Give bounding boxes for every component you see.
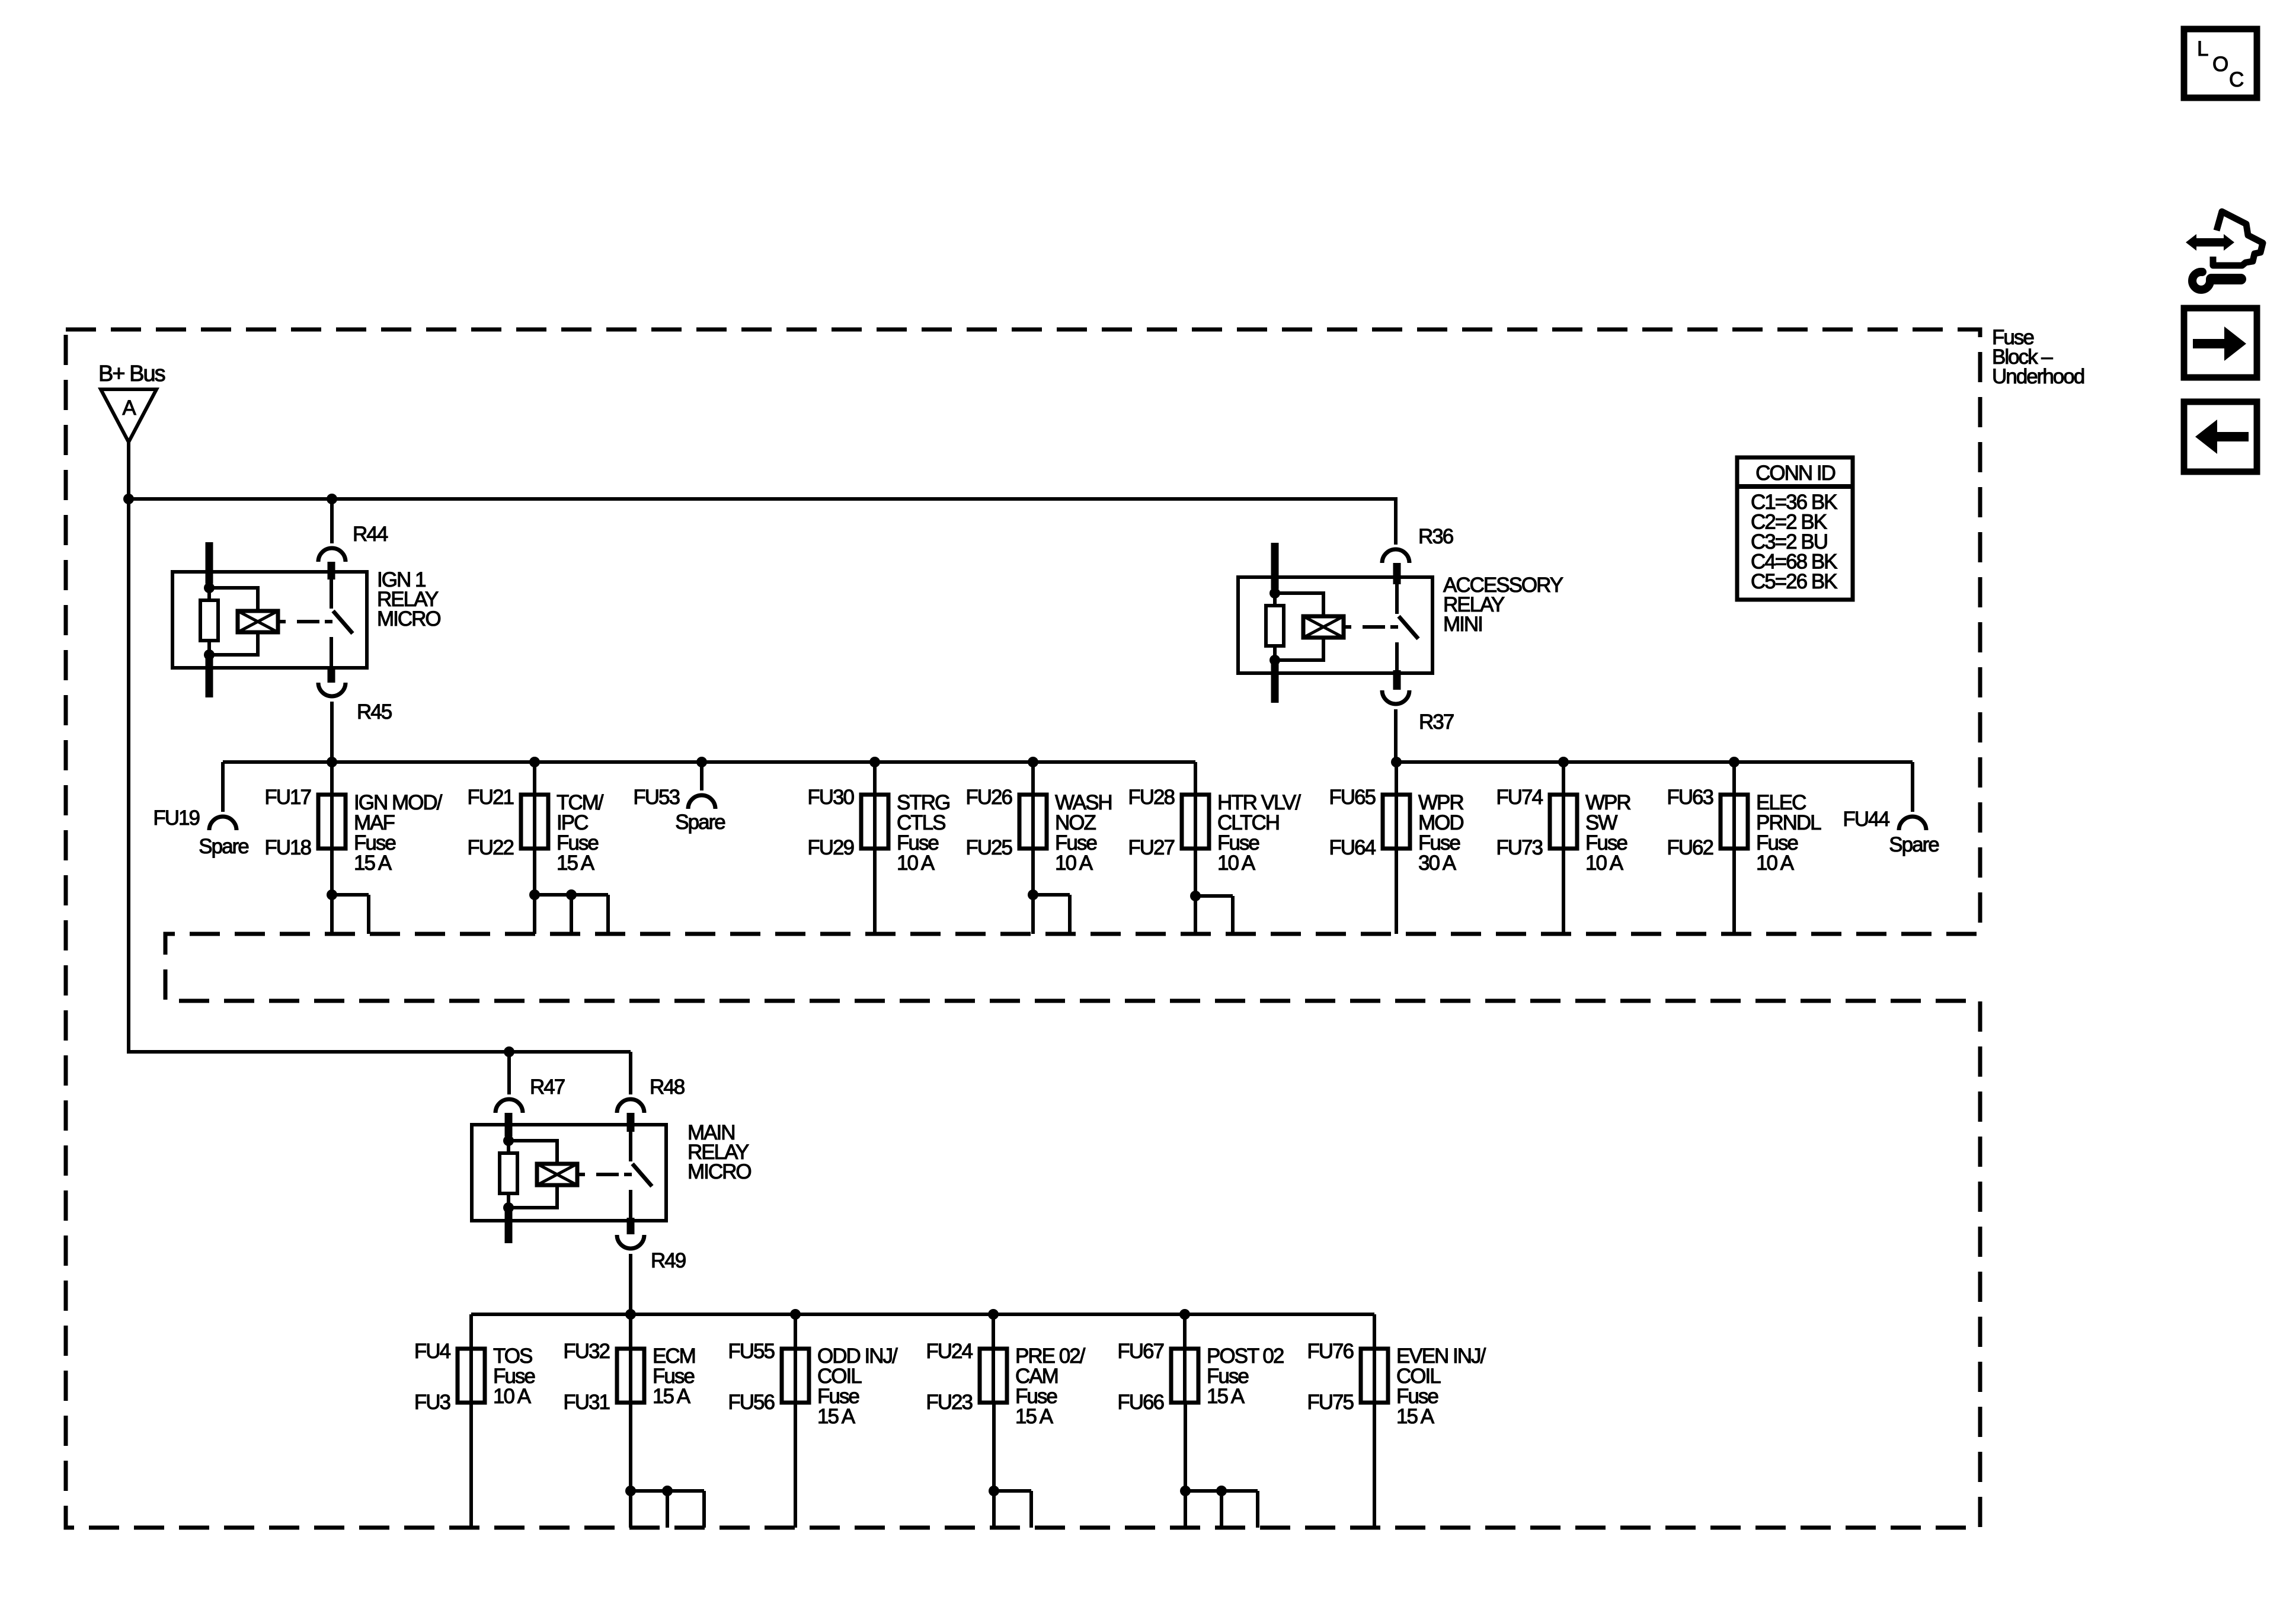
svg-text:FU18: FU18 xyxy=(264,836,311,859)
svg-text:FU75: FU75 xyxy=(1307,1391,1353,1414)
svg-text:R36: R36 xyxy=(1418,525,1453,548)
node: junction FU24 on main relay bus xyxy=(988,1309,999,1320)
svg-text:FU23: FU23 xyxy=(926,1391,972,1414)
svg-text:10 A: 10 A xyxy=(1217,852,1256,875)
svg-text:15 A: 15 A xyxy=(354,852,392,875)
icon: powertrain double arrow xyxy=(2186,234,2234,251)
node: junction FU55 on main relay bus xyxy=(790,1309,801,1320)
node: junction R45/FU17 on ignition bus xyxy=(327,757,337,767)
fuse FU17/FU18 IGN MOD/ 15 A xyxy=(330,762,334,795)
svg-text:15 A: 15 A xyxy=(653,1385,691,1408)
dashed outline: Fuse Block - Underhood boundary with C4 channel notch xyxy=(66,329,1980,1528)
svg-text:FU24: FU24 xyxy=(926,1340,973,1363)
wire: branch down to R44 xyxy=(330,499,334,543)
connector R47 (input) xyxy=(495,1099,523,1113)
svg-text:FU74: FU74 xyxy=(1496,786,1543,809)
connector R37 (output) xyxy=(1382,690,1409,704)
wire: ignition fuse bus xyxy=(223,760,1195,764)
svg-text:FU17: FU17 xyxy=(264,786,311,809)
wire: R45 output down to ignition fuse bus xyxy=(330,702,334,762)
wire: B+ vertical feed from triangle A down to main relay feed corner xyxy=(129,442,631,1052)
wire: R49 output down to main relay fuse bus xyxy=(629,1254,632,1314)
relay K2 ACCESSORY RELAY MINI xyxy=(1238,577,1432,673)
svg-text:FU19: FU19 xyxy=(153,806,199,830)
fuse FU21/FU22 TCM/ 15 A xyxy=(533,762,536,795)
svg-text:L: L xyxy=(2197,37,2208,60)
svg-text:A: A xyxy=(122,396,136,420)
wire: FU29 output to channel xyxy=(873,849,877,934)
svg-text:FU26: FU26 xyxy=(965,786,1012,809)
spare terminal FU44 xyxy=(1911,762,1914,812)
wire: FU75 output to border xyxy=(1373,1403,1376,1528)
node: junction FU67 on main relay bus xyxy=(1179,1309,1190,1320)
svg-text:CONN ID: CONN ID xyxy=(1755,462,1835,485)
svg-text:10 A: 10 A xyxy=(1055,852,1093,875)
svg-text:FU44: FU44 xyxy=(1843,808,1889,831)
fuse FU63/FU62 ELEC 10 A xyxy=(1732,762,1736,795)
wire: branch down to R47 xyxy=(507,1052,511,1094)
fuse FU4/FU3 TOS 10 A xyxy=(469,1314,473,1349)
wire: top horizontal B+ bus to accessory relay xyxy=(129,499,1396,545)
connector R49 (output) xyxy=(617,1235,644,1249)
svg-text:10 A: 10 A xyxy=(1756,852,1795,875)
svg-text:FU22: FU22 xyxy=(467,836,513,859)
wire: FU18 output fork to channel xyxy=(330,849,334,895)
wire: main relay fuse bus xyxy=(471,1313,1374,1316)
wire: FU66 output fork to border xyxy=(1184,1403,1187,1491)
svg-text:FU31: FU31 xyxy=(563,1391,609,1414)
spare terminal FU19 xyxy=(221,762,225,812)
icon: wrench xyxy=(2192,272,2210,290)
relay K3 MAIN RELAY MICRO xyxy=(472,1125,666,1221)
svg-text:O: O xyxy=(2212,53,2228,76)
svg-text:15 A: 15 A xyxy=(817,1405,856,1428)
fuse FU76/FU75 EVEN INJ/ 15 A xyxy=(1373,1314,1376,1349)
wire: drop to R48 xyxy=(629,1052,632,1094)
wire: FU73 output to channel xyxy=(1562,849,1565,934)
svg-text:FU4: FU4 xyxy=(414,1340,451,1363)
power symbol B+ Bus triangle A xyxy=(101,389,156,442)
fuse FU55/FU56 ODD INJ/ 15 A xyxy=(794,1314,797,1349)
fuse FU30/FU29 STRG 10 A xyxy=(873,762,877,795)
svg-text:FU65: FU65 xyxy=(1329,786,1375,809)
svg-text:10 A: 10 A xyxy=(1585,852,1624,875)
svg-text:R45: R45 xyxy=(357,700,392,724)
svg-text:Underhood: Underhood xyxy=(1992,365,2084,388)
svg-text:FU25: FU25 xyxy=(965,836,1012,859)
fuse FU28/FU27 HTR VLV/ 10 A xyxy=(1194,762,1197,795)
connector R36 (input) xyxy=(1382,549,1409,563)
spare terminal FU53 xyxy=(700,762,703,790)
node: B+ bus tee junction xyxy=(123,494,134,504)
svg-text:FU53: FU53 xyxy=(633,786,679,809)
fuse FU65/FU64 WPR 30 A xyxy=(1395,762,1398,795)
svg-text:FU21: FU21 xyxy=(467,786,513,809)
svg-text:R37: R37 xyxy=(1419,710,1454,734)
svg-text:R49: R49 xyxy=(651,1249,686,1272)
svg-text:FU63: FU63 xyxy=(1667,786,1713,809)
fuse FU74/FU73 WPR 10 A xyxy=(1562,762,1565,795)
node: junction FU63 on accessory bus xyxy=(1729,757,1739,767)
wire: FU56 output to border xyxy=(794,1403,797,1528)
wire: FU31 output fork to border xyxy=(629,1403,632,1491)
icon: LOC box xyxy=(2184,29,2257,98)
icon: powertrain outline xyxy=(2213,212,2263,265)
node: R44 branch junction on B+ bus xyxy=(327,494,337,504)
node: junction FU26 on ignition bus xyxy=(1028,757,1038,767)
svg-text:FU62: FU62 xyxy=(1667,836,1713,859)
svg-text:FU66: FU66 xyxy=(1117,1391,1163,1414)
svg-text:15 A: 15 A xyxy=(1207,1385,1245,1408)
svg-text:15 A: 15 A xyxy=(557,852,595,875)
svg-text:FU27: FU27 xyxy=(1128,836,1174,859)
node: junction FU53 on ignition bus xyxy=(696,757,707,767)
wire: FU23 output fork to border xyxy=(992,1403,996,1491)
svg-text:FU55: FU55 xyxy=(728,1340,774,1363)
fuse FU26/FU25 WASH 10 A xyxy=(1031,762,1035,795)
fuse FU32/FU31 ECM 15 A xyxy=(629,1314,632,1349)
svg-text:Spare: Spare xyxy=(1889,833,1939,856)
svg-text:FU73: FU73 xyxy=(1496,836,1542,859)
node: junction FU21 on ignition bus xyxy=(529,757,540,767)
fuse FU24/FU23 PRE 02/ 15 A xyxy=(992,1314,995,1349)
svg-text:FU67: FU67 xyxy=(1117,1340,1163,1363)
svg-text:Spare: Spare xyxy=(675,811,725,834)
svg-text:FU56: FU56 xyxy=(728,1391,774,1414)
svg-text:FU64: FU64 xyxy=(1329,836,1376,859)
relay K1 IGN 1 RELAY MICRO xyxy=(172,572,367,668)
node: junction R49/FU32 on main relay bus xyxy=(625,1309,636,1320)
svg-text:15 A: 15 A xyxy=(1015,1405,1054,1428)
svg-text:MICRO: MICRO xyxy=(687,1160,751,1183)
icon: back arrow box xyxy=(2184,402,2257,472)
svg-text:30 A: 30 A xyxy=(1418,852,1457,875)
svg-text:10 A: 10 A xyxy=(897,852,935,875)
svg-text:R48: R48 xyxy=(650,1076,685,1099)
svg-text:C5=26 BK: C5=26 BK xyxy=(1751,570,1837,593)
node: R47 branch junction on main relay feed xyxy=(504,1046,514,1057)
svg-text:R44: R44 xyxy=(353,523,388,546)
icon: forward arrow box xyxy=(2184,308,2257,377)
svg-text:FU29: FU29 xyxy=(807,836,853,859)
svg-text:15 A: 15 A xyxy=(1396,1405,1435,1428)
node: junction FU30 on ignition bus xyxy=(869,757,880,767)
node: junction FU74 on accessory bus xyxy=(1558,757,1569,767)
svg-text:Spare: Spare xyxy=(199,835,248,858)
connector R45 (output) xyxy=(318,683,346,696)
svg-text:B+ Bus: B+ Bus xyxy=(98,361,165,386)
svg-text:FU32: FU32 xyxy=(563,1340,609,1363)
wire: FU64 output to channel xyxy=(1395,849,1398,934)
table: CONN ID connector legend xyxy=(1737,457,1853,600)
wire: FU22 output fork to channel xyxy=(533,849,536,895)
svg-text:FU28: FU28 xyxy=(1128,786,1174,809)
fuse FU67/FU66 POST 02 15 A xyxy=(1183,1314,1187,1349)
svg-text:FU3: FU3 xyxy=(414,1391,450,1414)
svg-text:FU76: FU76 xyxy=(1307,1340,1353,1363)
wire: accessory fuse bus xyxy=(1396,760,1913,764)
wire: FU25 output fork to channel xyxy=(1031,849,1035,895)
svg-text:MINI: MINI xyxy=(1443,613,1482,636)
svg-text:R47: R47 xyxy=(530,1076,565,1099)
svg-text:C: C xyxy=(2229,68,2243,91)
svg-text:MICRO: MICRO xyxy=(377,607,440,630)
wire: R37 output down to accessory fuse bus xyxy=(1394,709,1398,762)
wire: FU62 output to channel xyxy=(1732,849,1736,934)
connector R44 (fuse block cavity, input) xyxy=(318,548,346,562)
wire: FU27 output fork to channel xyxy=(1194,849,1197,896)
svg-text:FU30: FU30 xyxy=(807,786,854,809)
wire: FU3 output to border xyxy=(469,1403,473,1528)
connector R48 (input) xyxy=(617,1099,644,1113)
svg-text:10 A: 10 A xyxy=(493,1385,532,1408)
node: junction R37/FU65 on accessory bus xyxy=(1391,757,1402,767)
